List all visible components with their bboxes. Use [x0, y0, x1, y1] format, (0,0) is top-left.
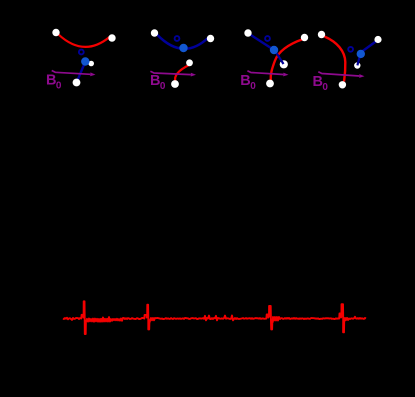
- O position marker 3: [265, 36, 270, 41]
- H atom top-right 1: [108, 34, 115, 41]
- red trajectory arc 1: [59, 35, 110, 47]
- svg-text:0: 0: [322, 82, 328, 93]
- O position marker 4: [348, 47, 353, 52]
- O position marker 2: [175, 36, 180, 41]
- molecule panel 4: [313, 31, 382, 93]
- navy bond arc 2: [157, 35, 209, 49]
- H atom top-right 2: [207, 35, 214, 42]
- O-H bond 1: [77, 62, 85, 82]
- O atom 2: [179, 44, 187, 52]
- red trajectory arc 3: [271, 39, 303, 80]
- H atom top-left 1: [52, 29, 59, 36]
- H atom top-left 2: [151, 29, 158, 36]
- molecule panel 2: [150, 29, 214, 92]
- red trajectory arc 2: [175, 65, 189, 82]
- svg-text:0: 0: [250, 81, 256, 92]
- B0 field arrow 4: [318, 72, 359, 76]
- O-H bond 4a: [362, 41, 377, 52]
- H atom top-left 4: [318, 31, 325, 38]
- small H atom 1: [88, 61, 94, 67]
- small H atom 3: [280, 60, 288, 68]
- echo signal trace: [63, 301, 366, 334]
- B0 field arrow 2: [150, 71, 190, 74]
- B0 field arrow 3: [247, 71, 283, 75]
- svg-text:0: 0: [56, 81, 62, 92]
- small H atom 2: [186, 59, 193, 66]
- svg-text:0: 0: [160, 81, 166, 92]
- O-H bond 4b: [357, 56, 359, 65]
- H atom top-right 4: [374, 36, 381, 43]
- O-H bond 3b: [276, 52, 284, 65]
- O atom 1: [81, 57, 89, 65]
- B0 field arrow 1: [52, 71, 91, 75]
- H atom top-right 3: [301, 34, 308, 41]
- O atom 4: [357, 50, 365, 58]
- H atom bottom 4: [339, 81, 346, 88]
- O position marker 1: [79, 50, 84, 55]
- O-H bond 3a: [250, 35, 273, 50]
- H atom bottom 3: [266, 80, 274, 88]
- red trajectory arc 4: [325, 37, 346, 82]
- H atom bottom 1: [73, 79, 81, 87]
- O atom 3: [270, 46, 278, 54]
- small H atom 4: [354, 62, 360, 68]
- H atom bottom 2: [171, 80, 179, 88]
- molecule panel 1: [46, 29, 116, 92]
- H atom top-left 3: [244, 29, 251, 36]
- molecule panel 3: [240, 29, 308, 92]
